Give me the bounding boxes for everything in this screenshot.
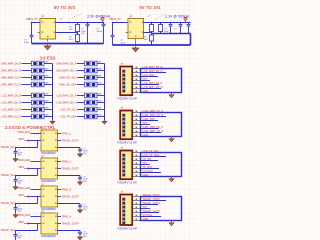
svg-text:VCC1V1: VCC1V1 [143, 213, 154, 217]
svg-text:VBUS_5V: VBUS_5V [26, 17, 38, 21]
svg-text:47K: 47K [144, 39, 148, 41]
svg-text:TPAD_EN1: TPAD_EN1 [17, 131, 30, 134]
svg-text:PZ254V-11-6P: PZ254V-11-6P [118, 97, 137, 101]
svg-text:75K: 75K [69, 29, 73, 31]
svg-text:TPAD_1: TPAD_1 [62, 132, 72, 136]
svg-text:ESD: ESD [98, 83, 103, 85]
svg-text:SGM48000: SGM48000 [41, 234, 56, 238]
svg-text:U?: U? [129, 15, 133, 19]
svg-text:2.0 ESD & POWER CTRL: 2.0 ESD & POWER CTRL [5, 125, 56, 130]
svg-text:TRACK_IN2: TRACK_IN2 [1, 174, 15, 177]
svg-text:LCD_MIPI_D0_N: LCD_MIPI_D0_N [143, 69, 163, 73]
svg-text:ESD: ESD [45, 115, 50, 117]
svg-text:TP_INT: TP_INT [143, 157, 152, 161]
svg-text:TP?: TP? [143, 161, 148, 165]
svg-text:TPAD_3: TPAD_3 [62, 188, 72, 192]
svg-text:ESD: ESD [45, 83, 50, 85]
svg-text:CAM_MIPI_CK_N: CAM_MIPI_CK_N [56, 69, 77, 73]
svg-text:3.0 ESD: 3.0 ESD [39, 56, 55, 61]
svg-text:TRACK_OUT3: TRACK_OUT3 [143, 201, 161, 205]
svg-text:LCD_RST: LCD_RST [143, 73, 155, 77]
svg-text:LCD_TP_SDA: LCD_TP_SDA [60, 115, 77, 119]
svg-text:U?: U? [41, 15, 45, 19]
svg-text:VBAT: VBAT [18, 194, 24, 197]
svg-text:LCD_TP_SDA: LCD_TP_SDA [143, 153, 160, 157]
svg-text:VBAT: VBAT [18, 166, 24, 169]
svg-text:TP_RST: TP_RST [143, 165, 153, 169]
svg-text:CAM_MIPI_D1_N: CAM_MIPI_D1_N [1, 83, 21, 87]
svg-text:PZ254V-11-6P: PZ254V-11-6P [118, 181, 137, 185]
svg-text:5V TO 1V1: 5V TO 1V1 [139, 5, 161, 10]
svg-text:ESD: ESD [98, 94, 103, 96]
svg-text:LCD_MIPI_CK_N: LCD_MIPI_CK_N [57, 101, 77, 105]
svg-text:TP?: TP? [143, 121, 148, 125]
svg-text:LCD_MIPI_D1_N: LCD_MIPI_D1_N [143, 85, 163, 89]
svg-text:LCD_MIPI_D1_P: LCD_MIPI_D1_P [143, 81, 163, 85]
svg-text:CAM_MIPI_CK_N: CAM_MIPI_CK_N [143, 129, 164, 133]
svg-text:VBUS_5V: VBUS_5V [109, 17, 121, 21]
svg-text:3.3V @450mA: 3.3V @450mA [87, 14, 111, 18]
svg-text:TRACK_IN1: TRACK_IN1 [1, 146, 15, 149]
svg-text:CAM_MIPI_D0_N: CAM_MIPI_D0_N [143, 113, 164, 117]
svg-text:LCD_TP_SCL: LCD_TP_SCL [60, 108, 77, 112]
svg-text:10uF: 10uF [24, 42, 29, 44]
svg-text:ESD: ESD [45, 101, 50, 103]
svg-text:TRACK_OUT2: TRACK_OUT2 [62, 167, 80, 171]
svg-text:CAM_RST: CAM_RST [143, 117, 156, 121]
svg-text:ESD: ESD [98, 62, 103, 64]
svg-text:CAM_MIPI_D0_P: CAM_MIPI_D0_P [1, 62, 21, 66]
svg-text:CAM_MIPI_CK_P: CAM_MIPI_CK_P [143, 125, 164, 129]
svg-text:SGM48000: SGM48000 [41, 207, 56, 211]
svg-text:ESD: ESD [98, 101, 103, 103]
svg-text:TRACK_OUT1: TRACK_OUT1 [62, 139, 80, 143]
svg-text:ESD: ESD [45, 108, 50, 110]
svg-text:PZ254V-11-6P: PZ254V-11-6P [118, 141, 137, 145]
svg-text:TPAD_EN3: TPAD_EN3 [17, 187, 30, 190]
svg-text:10uF: 10uF [164, 31, 169, 33]
svg-text:SGM48000: SGM48000 [41, 151, 56, 155]
svg-text:25V: 25V [81, 33, 85, 35]
svg-text:CAM_I2C_SDA: CAM_I2C_SDA [59, 83, 77, 87]
svg-text:TRACK_OUT4: TRACK_OUT4 [62, 222, 80, 226]
svg-text:LCD_MIPI_D1_P: LCD_MIPI_D1_P [1, 108, 21, 112]
svg-text:SGM48000: SGM48000 [41, 179, 56, 183]
svg-text:TPAD_EN2: TPAD_EN2 [17, 159, 30, 162]
svg-text:CAM_MIPI_D1_P: CAM_MIPI_D1_P [1, 76, 21, 80]
svg-text:ESD: ESD [45, 76, 50, 78]
svg-text:TRACK_IN3: TRACK_IN3 [1, 202, 15, 205]
svg-text:TP?: TP? [143, 77, 148, 81]
svg-text:ESD: ESD [98, 108, 103, 110]
svg-text:ESD: ESD [45, 62, 50, 64]
svg-text:LCD_MIPI_D0_P: LCD_MIPI_D0_P [1, 94, 21, 98]
svg-text:PZ254V-11-6P: PZ254V-11-6P [118, 226, 137, 230]
svg-text:CAM_MIPI_CK_P: CAM_MIPI_CK_P [56, 62, 77, 66]
svg-text:TRACK_OUT4: TRACK_OUT4 [143, 209, 161, 213]
svg-text:100nF: 100nF [97, 31, 104, 33]
svg-text:TRACK_IN4: TRACK_IN4 [1, 229, 15, 232]
svg-text:VBAT: VBAT [18, 138, 24, 141]
svg-text:LCD_MIPI_D1_N: LCD_MIPI_D1_N [1, 115, 21, 119]
svg-text:47K: 47K [69, 39, 73, 41]
svg-text:ESD: ESD [98, 115, 103, 117]
svg-text:TPAD_4: TPAD_4 [62, 215, 72, 219]
svg-text:LCD_MIPI_CK_P: LCD_MIPI_CK_P [57, 94, 77, 98]
svg-text:TP?: TP? [143, 205, 148, 209]
svg-text:LCD_MIPI_D0_N: LCD_MIPI_D0_N [1, 101, 21, 105]
svg-text:CAM_I2C_SCL: CAM_I2C_SCL [59, 76, 77, 80]
svg-text:ESD: ESD [45, 94, 50, 96]
svg-text:TPAD_2: TPAD_2 [62, 160, 72, 164]
svg-text:TRACK_OUT3: TRACK_OUT3 [62, 195, 80, 199]
svg-text:VCC3V3: VCC3V3 [143, 169, 154, 173]
svg-text:ESD: ESD [98, 76, 103, 78]
svg-text:ESD: ESD [45, 69, 50, 71]
svg-text:TPAD_EN4: TPAD_EN4 [17, 214, 30, 217]
svg-text:5V TO 3V3: 5V TO 3V3 [54, 5, 76, 10]
svg-text:ESD: ESD [98, 69, 103, 71]
svg-text:CAM_MIPI_D0_N: CAM_MIPI_D0_N [1, 69, 21, 73]
svg-text:TRACK_OUT2: TRACK_OUT2 [143, 197, 161, 201]
svg-text:VBAT: VBAT [18, 221, 24, 224]
